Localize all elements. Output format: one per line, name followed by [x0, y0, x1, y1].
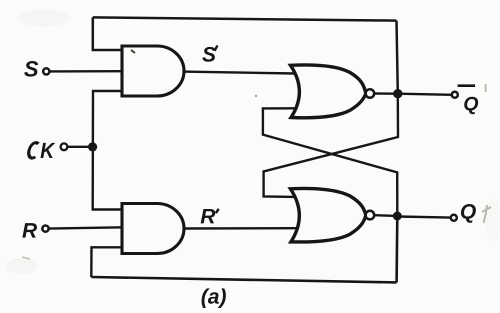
- scan smudge top-left: [18, 9, 70, 27]
- wire: top feedback right vertical down to Qbar node: [397, 21, 398, 94]
- wire: S' net from A1 output to NOR G1 input: [182, 72, 295, 74]
- label (a) caption: [202, 288, 226, 308]
- scan smudge bottom-left: [6, 258, 38, 274]
- speck inside AND A1: [131, 50, 135, 53]
- wire: bottom feedback stub into AND A2 bottom input: [91, 247, 122, 277]
- wire: bottom feedback right vertical up to Q node: [395, 216, 398, 282]
- wire: R' net from A2 output to NOR G2 input: [182, 227, 296, 230]
- pencil tick bottom-left: [22, 257, 30, 259]
- wire: CK vertical bus (up to A1 lower input, down to A2 upper input): [93, 91, 122, 210]
- terminal: CK: [61, 143, 68, 150]
- wire: R input to AND A2: [49, 227, 124, 228]
- overbar of Qbar: [458, 84, 476, 87]
- AND gate A2 (CK, R): [122, 204, 184, 254]
- wire: Q node to output terminal: [397, 217, 451, 218]
- label Qbar: [464, 97, 478, 114]
- wire: top feedback left vertical and stub into AND A1 top input: [93, 17, 122, 50]
- wire: bottom feedback horizontal run: [91, 277, 396, 282]
- wire: cross-coupling Qbar to G2 upper input: [264, 94, 398, 197]
- label R-prime: [201, 209, 219, 224]
- pencil tick right of Qbar: [485, 84, 487, 92]
- NOR gate G2 inversion bubble: [366, 211, 375, 220]
- terminal: R: [42, 226, 48, 232]
- NOR gate G1 (top) body: [291, 65, 366, 118]
- terminal: S: [43, 68, 49, 74]
- pencil mark right of Q output: [482, 205, 491, 223]
- label S-prime: [202, 46, 217, 62]
- terminal: Qbar output: [452, 92, 458, 98]
- terminal: Q output: [451, 215, 457, 221]
- wire: G1 bubble to Qbar node: [374, 92, 398, 95]
- label R: [22, 223, 37, 237]
- wire: G2 bubble to Q node: [374, 214, 397, 217]
- wire: top feedback horizontal from Qbar node to left: [93, 17, 397, 20]
- wire: CK terminal to junction: [68, 146, 93, 148]
- speck near NOR G1 input: [255, 95, 257, 97]
- junction: Q node: [393, 212, 402, 221]
- label S: [24, 61, 38, 77]
- wire: S input to AND A1: [50, 70, 124, 73]
- NOR gate G2 (bottom) body: [290, 188, 365, 242]
- NOR gate G1 inversion bubble: [366, 89, 375, 98]
- AND gate A1 (S, CK): [122, 46, 184, 96]
- junction: CK node: [88, 142, 97, 151]
- scan smudge right: [485, 198, 500, 242]
- wire: cross-coupling Q to G1 lower input: [263, 108, 397, 216]
- wire: Qbar node to output terminal: [398, 94, 452, 95]
- label CK: [27, 143, 55, 158]
- label Q: [461, 204, 476, 223]
- junction: Qbar node: [393, 89, 402, 98]
